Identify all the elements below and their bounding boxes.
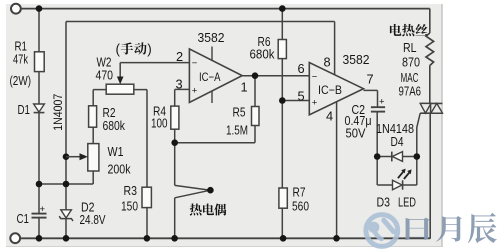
- input terminal bottom: [10, 233, 20, 243]
- svg-text:5: 5: [298, 89, 305, 104]
- triac MAC97A6: [420, 102, 442, 104]
- junction top rail at R1: [36, 5, 43, 12]
- W2 wiper arrow: [117, 77, 124, 85]
- junction ground rail D1 branch: [36, 235, 43, 242]
- resistor R2: [89, 106, 97, 127]
- watermark logo circle: [366, 215, 398, 247]
- wire W2 wiper riser: [119, 63, 121, 80]
- svg-text:C1: C1: [17, 211, 30, 226]
- wire R7 bottom lead: [281, 208, 283, 238]
- op-amp IC-A: [189, 49, 242, 103]
- wire R4-R5 link y143: [175, 142, 255, 144]
- svg-text:D1: D1: [18, 102, 31, 117]
- junction node y184 right: [63, 181, 70, 188]
- wire +V inner rail horizontal: [66, 21, 335, 23]
- svg-text:R5: R5: [233, 105, 246, 120]
- svg-text:RL: RL: [403, 40, 417, 55]
- wire +V inner rail vertical left: [65, 22, 67, 239]
- wire mains right riser top: [429, 9, 431, 33]
- IC-A top power tick: [211, 47, 213, 61]
- IC-A bottom power tick: [211, 91, 213, 103]
- wire R5 branch: [254, 76, 256, 107]
- wire C2 bottom lead: [376, 112, 378, 157]
- LED D3: [393, 180, 403, 189]
- wire IC-A output to IC-B pin6: [242, 75, 309, 77]
- input terminal top: [11, 4, 21, 14]
- wire IC-B pin5 input: [282, 100, 309, 102]
- svg-text:(2W): (2W): [10, 73, 32, 88]
- junction node y184 left: [36, 181, 43, 188]
- wire bottom ground rail: [20, 237, 430, 239]
- wire D3 anode lead: [377, 184, 392, 186]
- svg-text:6: 6: [298, 61, 305, 76]
- potentiometer W1 200k: [88, 144, 99, 171]
- junction ground rail thermocouple: [171, 235, 178, 242]
- wire D4 anode lead: [403, 156, 417, 158]
- wire IC-A pin3 input: [175, 88, 190, 90]
- junction ground rail IC-B pin4: [333, 235, 340, 242]
- wire R4 branch vertical: [174, 89, 176, 106]
- svg-text:97A6: 97A6: [399, 84, 422, 99]
- svg-text:): ): [147, 42, 152, 57]
- thermocouple junction: [175, 185, 211, 190]
- resistor R4: [171, 106, 179, 129]
- svg-text:D3: D3: [377, 195, 391, 210]
- resistor R3: [142, 187, 151, 207]
- svg-text:LED: LED: [398, 195, 416, 210]
- wire D4 left node drop: [376, 157, 378, 186]
- svg-text:1.5M: 1.5M: [226, 123, 248, 138]
- svg-text:W1: W1: [108, 144, 124, 159]
- svg-text:−: −: [312, 72, 318, 83]
- wire W2 left lead: [93, 89, 106, 91]
- svg-text:100: 100: [151, 116, 168, 131]
- wire top supply rail: [21, 8, 430, 10]
- svg-text:680k: 680k: [250, 47, 276, 62]
- junction IC-A output node: [252, 72, 259, 79]
- wire R5 bottom lead: [254, 126, 256, 143]
- wire triac to ground rail: [429, 113, 431, 239]
- diode D1: [34, 104, 45, 112]
- svg-text:50V: 50V: [346, 126, 366, 141]
- wire R6 bottom to node: [281, 59, 283, 101]
- heater resistor RL zigzag: [426, 33, 434, 66]
- wire C2 top lead: [377, 90, 379, 107]
- zener diode D2 24.8V: [61, 210, 72, 218]
- svg-text:3582: 3582: [198, 30, 225, 45]
- potentiometer W2 470 manual: [106, 84, 134, 94]
- svg-text:1N4007: 1N4007: [51, 94, 65, 131]
- wire triac internal vertical: [430, 103, 432, 113]
- svg-text:4: 4: [326, 109, 333, 124]
- svg-text:870: 870: [402, 55, 420, 70]
- junction ground rail R3: [144, 235, 151, 242]
- wire D4 cathode lead: [377, 156, 392, 158]
- wire thermocouple lower leg: [174, 198, 176, 239]
- diode D4 1N4148: [392, 152, 402, 162]
- svg-text:24.8V: 24.8V: [80, 212, 106, 227]
- svg-text:680k: 680k: [103, 118, 126, 133]
- svg-text:200k: 200k: [108, 162, 131, 177]
- svg-text:2: 2: [176, 49, 183, 64]
- resistor R6: [278, 40, 286, 59]
- resistor R5: [252, 107, 260, 126]
- wire IC-B output: [364, 89, 378, 91]
- junction R4 thermocouple node: [171, 139, 178, 146]
- junction C2 D4 node: [374, 153, 381, 160]
- wire R7 top lead: [281, 101, 283, 189]
- svg-text:IC−A: IC−A: [199, 70, 221, 84]
- capacitor C1: [32, 213, 47, 215]
- wire W1 bottom leg: [92, 171, 94, 184]
- wire node link y184: [39, 183, 93, 185]
- watermark text ri yue chen: [406, 218, 430, 240]
- wire D3-D4 right link: [416, 157, 418, 186]
- svg-text:R3: R3: [124, 183, 138, 198]
- label thermocouple: [190, 204, 202, 216]
- svg-text:560: 560: [292, 199, 309, 214]
- label heater wire: [390, 24, 401, 36]
- svg-text:+: +: [312, 97, 318, 108]
- resistor R1: [35, 52, 45, 72]
- wire triac gate: [417, 113, 420, 156]
- svg-text:IC−B: IC−B: [318, 83, 342, 97]
- junction R6 pin5 node: [279, 97, 286, 104]
- resistor R7: [279, 188, 287, 208]
- junction ground rail R7: [280, 235, 287, 242]
- wire D3 cathode lead: [403, 184, 417, 186]
- junction top rail at R6: [279, 5, 286, 12]
- svg-text:+: +: [40, 204, 46, 215]
- wire IC-A pin2 input: [120, 62, 189, 64]
- svg-text:+: +: [192, 86, 198, 97]
- svg-text:−: −: [192, 58, 198, 69]
- wire IC-B pin4 ground: [336, 102, 338, 239]
- junction W1 wiper node: [63, 153, 70, 160]
- svg-text:47k: 47k: [13, 52, 28, 67]
- junction ground rail zener branch: [63, 235, 70, 242]
- wire R4 to thermocouple: [174, 129, 176, 185]
- capacitor C2: [371, 106, 385, 108]
- svg-text:(: (: [116, 42, 121, 57]
- svg-text:D4: D4: [391, 134, 404, 149]
- svg-text:3: 3: [176, 77, 183, 92]
- wire R6 top lead: [281, 9, 283, 40]
- wire IC-B pin8 supply: [334, 22, 336, 75]
- svg-text:8: 8: [324, 55, 331, 70]
- wire RL to triac: [429, 66, 431, 104]
- svg-text:+: +: [379, 97, 385, 108]
- svg-text:3582: 3582: [343, 52, 370, 67]
- junction D4 gate node: [414, 153, 421, 160]
- wire W2 right lead: [134, 89, 147, 91]
- svg-text:R7: R7: [293, 185, 306, 200]
- W1 wiper arrow: [66, 156, 82, 158]
- op-amp IC-B: [309, 63, 363, 115]
- svg-text:150: 150: [121, 199, 138, 214]
- wire R3 branch vertical: [146, 90, 148, 239]
- wire R1-D1 branch vertical: [38, 9, 40, 239]
- wire R2 branch vertical: [92, 90, 94, 144]
- svg-text:470: 470: [96, 68, 114, 83]
- svg-text:7: 7: [367, 72, 374, 87]
- svg-text:1: 1: [241, 80, 248, 95]
